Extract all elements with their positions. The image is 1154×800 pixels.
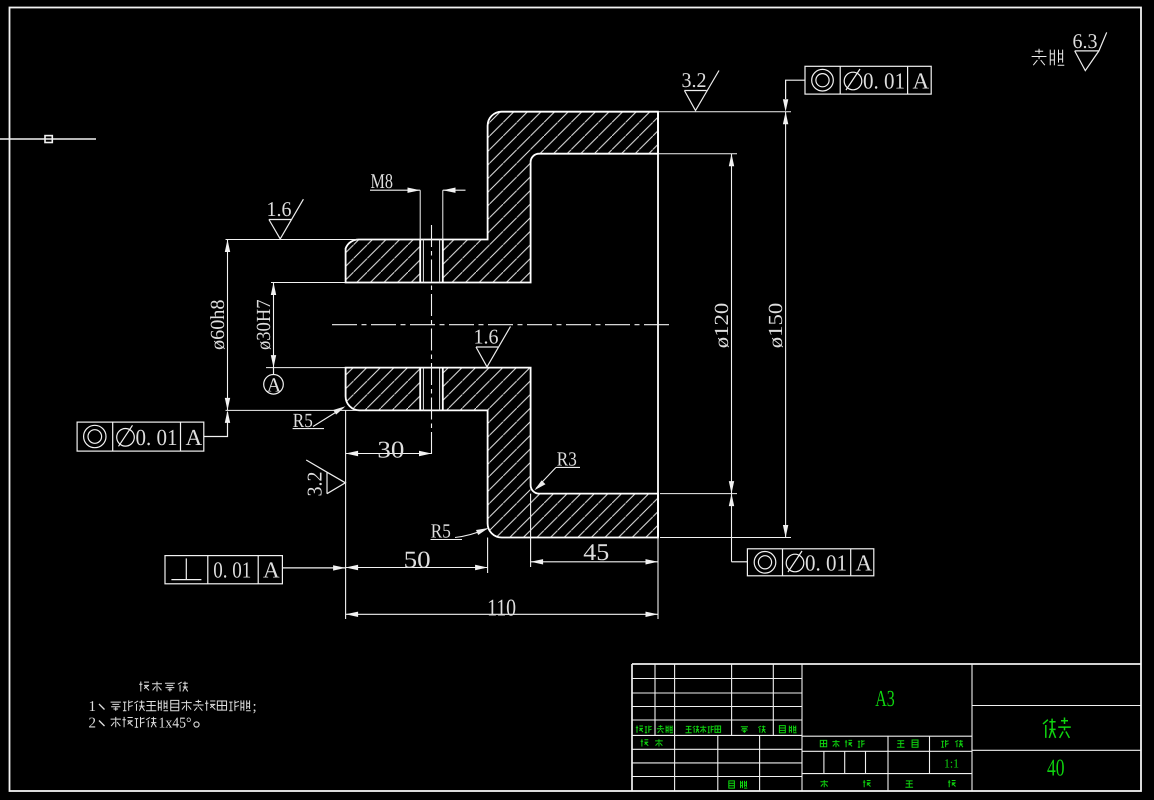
svg-text:30: 30 xyxy=(377,438,404,464)
svg-text:A: A xyxy=(263,558,280,583)
stray construction line with grip square xyxy=(0,138,96,140)
svg-text:3.2: 3.2 xyxy=(303,472,327,497)
M8 hole centerline xyxy=(431,225,433,458)
svg-text:3.2: 3.2 xyxy=(682,68,707,92)
surface finish 1.6 (center, on Ø30 bore surface) xyxy=(476,327,511,367)
svg-text:2: 2 xyxy=(89,716,97,732)
svg-text:45: 45 xyxy=(583,540,609,566)
svg-text:0. 01: 0. 01 xyxy=(805,550,847,575)
svg-text:0. 01: 0. 01 xyxy=(863,69,905,94)
svg-text:ø60h8: ø60h8 xyxy=(207,300,229,351)
leader + feature control frame bottom-left (perpendicularity 0.01 A) xyxy=(165,556,346,584)
leader + feature control frame left (circular runout 0.01 A) xyxy=(77,412,227,451)
title block hanzi labels (green strokes) xyxy=(636,718,1071,789)
dimension diameter 150 xyxy=(658,99,791,537)
surface finish 3.2 (top, on Ø150 surface) xyxy=(684,71,719,111)
note 全部 (all surfaces, hanzi strokes) xyxy=(1032,49,1065,66)
dimension 45 xyxy=(531,494,658,619)
leader + feature control frame top-right (circular runout 0.01 A) xyxy=(786,66,932,99)
part name 接头 xyxy=(1043,718,1071,738)
svg-text:A: A xyxy=(913,69,930,94)
svg-text:ø30H7: ø30H7 xyxy=(253,300,275,351)
svg-text:0. 01: 0. 01 xyxy=(136,425,178,450)
datum A symbol xyxy=(264,368,284,395)
horizontal centerline xyxy=(332,324,672,326)
PART: hatched section top half xyxy=(346,112,658,283)
svg-text:40: 40 xyxy=(1047,756,1065,782)
note: all-over roughness 6.3 top right xyxy=(1075,32,1107,70)
svg-text:A: A xyxy=(267,375,282,397)
svg-text:R5: R5 xyxy=(431,521,451,543)
dimension M8 xyxy=(370,188,466,240)
svg-text:6.3: 6.3 xyxy=(1073,29,1098,53)
label R5 (flange bottom corner) xyxy=(431,529,487,540)
PART: hatched section bottom half xyxy=(346,368,658,538)
surface finish 1.6 (top left, on Ø60 upper surface) xyxy=(269,199,304,239)
leader + feature control frame bottom-right (circular runout 0.01 A) xyxy=(732,549,874,576)
dimension 110 xyxy=(346,410,658,619)
part right face edge (visible edge of recess opening) xyxy=(657,112,659,538)
svg-text:R3: R3 xyxy=(557,449,577,471)
TITLE BLOCK xyxy=(632,664,1141,791)
label R3 (recess corner) xyxy=(536,467,580,488)
svg-text:1: 1 xyxy=(89,699,97,715)
dimension diameter 60h8 xyxy=(225,240,358,411)
svg-text:1.6: 1.6 xyxy=(474,325,499,349)
svg-text:50: 50 xyxy=(404,548,431,574)
svg-text:1:1: 1:1 xyxy=(944,756,959,770)
dimension 50 xyxy=(346,538,488,574)
svg-text:R5: R5 xyxy=(293,410,313,432)
M8 thread minor lines xyxy=(422,240,424,283)
svg-text:1x45°: 1x45° xyxy=(159,716,192,732)
svg-text:110: 110 xyxy=(487,596,516,622)
svg-text:A: A xyxy=(856,551,873,576)
svg-text:M8: M8 xyxy=(371,169,394,193)
svg-text:;: ; xyxy=(253,699,257,715)
svg-text:0. 01: 0. 01 xyxy=(213,557,251,582)
dimension diameter 120 xyxy=(658,154,737,562)
svg-text:A3: A3 xyxy=(875,686,895,711)
surface finish 3.2 rotated (on flange left end face) xyxy=(306,460,345,494)
label R5 (cylinder end corner) xyxy=(293,408,344,429)
svg-text:1.6: 1.6 xyxy=(267,197,292,221)
svg-text:ø120: ø120 xyxy=(711,303,733,349)
svg-text:A: A xyxy=(186,425,203,450)
dimension 30 xyxy=(346,451,432,456)
technical requirements heading (hanzi strokes) xyxy=(139,682,188,692)
svg-text:ø150: ø150 xyxy=(765,303,787,349)
dimension diameter 30H7 xyxy=(266,283,346,368)
